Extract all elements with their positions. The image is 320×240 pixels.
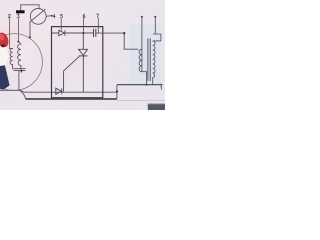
node: dot ground riser: [116, 90, 118, 92]
wire: switch lower lead down to flywheel node: [29, 22, 31, 37]
node: dot primary return junction: [146, 84, 148, 86]
terminal 5 lead into box: [60, 18, 62, 30]
coil core yoke: [13, 65, 26, 71]
thyristor cathode bar: [79, 55, 88, 57]
highlight panel behind ignition coil: [130, 24, 161, 85]
thyristor gate lead: [64, 56, 80, 92]
wire: terminal 3 lead from fuse down to charge coil node: [17, 13, 19, 41]
node: dot switch wire on flywheel: [29, 36, 31, 38]
switch lever: [30, 9, 45, 22]
diode D2 (trigger): [56, 88, 62, 94]
secondary terminal tick: [154, 16, 156, 18]
node: dot terminal3 to charge coil: [17, 41, 19, 43]
primary bottom lead: [142, 72, 147, 85]
magneto ground lead: [18, 71, 20, 91]
secondary winding (bumps right): [153, 41, 155, 78]
pickup coil L2 (bumps left): [10, 49, 12, 65]
charge coil L1 lead: [18, 42, 21, 44]
wire: switch output to terminal 4 arrow: [46, 15, 51, 17]
paper background: [0, 0, 165, 110]
scan crease (faint): [117, 100, 165, 102]
flywheel magneto rim (large arc): [0, 34, 42, 91]
wire: anode feed inside box (diode row): [52, 32, 94, 34]
capacitor C1 plates: [94, 29, 96, 37]
secondary top step: [153, 34, 161, 41]
transformer core lines: [148, 38, 150, 81]
thyristor SCR triangle: [79, 49, 88, 55]
node: dot D1/SCR junction: [82, 32, 84, 34]
wire: riser junction at right of box: [116, 85, 118, 100]
photo inset: white insulator: [0, 47, 8, 69]
label 5: [60, 14, 62, 18]
wire: lower ground bus under CDI box: [26, 98, 117, 100]
arrowhead terminal 4: [51, 15, 53, 17]
label 2: [8, 14, 10, 17]
label 3: [17, 14, 19, 17]
node: dot primary feed corner: [123, 32, 125, 34]
photo inset: red plug cap: [0, 31, 10, 49]
wire: fuse lead up: [20, 5, 22, 10]
primary winding (bumps left): [139, 49, 142, 71]
thyristor SCR anode lead: [82, 33, 84, 49]
wire: terminal 2 lead down to pickup coil: [9, 18, 11, 48]
caption band bottom-right: [148, 104, 165, 110]
diode D1: [59, 30, 65, 35]
wire: jog down to lower bus: [20, 90, 26, 99]
charge coil L1 (bumps left): [18, 44, 21, 66]
wire: capacitor to transformer node: [96, 32, 124, 34]
ignition coil T1 primary lead + chord: [141, 17, 143, 72]
core nub: [21, 70, 23, 73]
ignition switch S1 (circle): [30, 9, 46, 25]
wire: top bus from fuse to ignition switch: [21, 5, 39, 9]
label 6: [83, 14, 85, 18]
label 4: [53, 14, 55, 18]
secondary terminal lead: [154, 17, 156, 34]
fuse F (solid bar): [16, 10, 25, 13]
wire: step down to primary top: [124, 33, 138, 49]
label 1: [160, 86, 163, 90]
secondary bottom lead: [152, 78, 154, 85]
pickup coil L2 lead joins terminal2 line: [10, 48, 13, 50]
label 7: [96, 14, 98, 18]
terminal 7 lead into box: [97, 18, 99, 33]
scan mottle: [0, 0, 173, 111]
HT output arrowhead: [161, 84, 164, 86]
thyristor cathode lead: [82, 56, 84, 92]
wire: bottom return to transformer: [117, 84, 162, 86]
photo inset: navy plug body band: [0, 65, 10, 89]
terminal 6 lead into box: [83, 18, 85, 33]
primary terminal tick: [141, 16, 143, 18]
CDI unit box: [52, 27, 103, 98]
wire: ground bus from left edge to junction right of box: [0, 90, 117, 92]
